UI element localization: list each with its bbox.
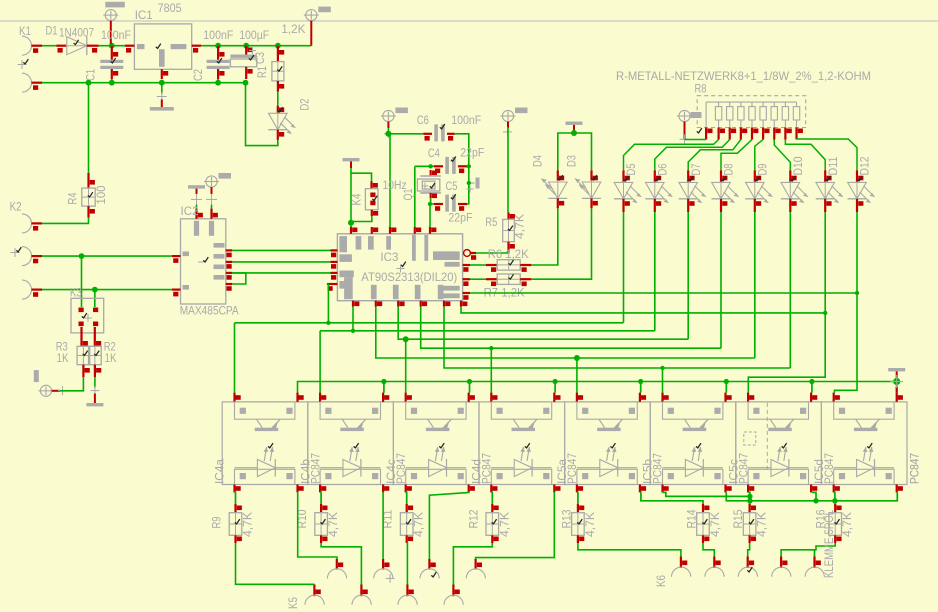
resistor R12 4.7K xyxy=(466,504,511,543)
wire R8 to D10 xyxy=(774,140,790,171)
resistor network R8 xyxy=(695,82,806,140)
wire IC3 pin1 down xyxy=(352,307,354,331)
capacitor C1 100nF xyxy=(84,28,132,81)
wire net D9 row xyxy=(376,307,755,362)
wire rail to R4 xyxy=(88,83,90,173)
svg-text:C5: C5 xyxy=(446,179,458,193)
wire net D10 row xyxy=(444,307,790,371)
wire R13 to K6 xyxy=(578,543,681,557)
wire C4 right to vertical xyxy=(467,164,471,168)
resistor R16 4.7K xyxy=(814,501,855,543)
optocoupler IC5a (PC847) xyxy=(555,393,665,493)
wire R8 to D11 xyxy=(785,140,825,171)
wire drop to opto IC4b xyxy=(319,331,321,393)
svg-text:R9: R9 xyxy=(210,516,224,528)
svg-text:R1: R1 xyxy=(255,66,269,78)
LED D3 xyxy=(565,155,602,208)
wire D2 cathode to ground rail xyxy=(243,80,278,146)
wire R14 to K6 xyxy=(703,543,714,557)
resistor R1 1.2K xyxy=(255,22,306,92)
connector K6 KLEMME-5POL xyxy=(654,557,824,588)
wire R8 to D7 xyxy=(688,140,741,171)
wire D7 vertical xyxy=(687,212,689,339)
capacitor C2 100nF xyxy=(191,28,234,81)
jumper K4 xyxy=(350,173,379,221)
wire supply to R5 xyxy=(507,128,509,213)
wire R12 to K5 pin xyxy=(453,543,492,585)
resistor R9 4.7K xyxy=(210,504,255,543)
connector K5 lower pins xyxy=(286,585,463,610)
supply +5V at C6 xyxy=(381,108,408,139)
wire opto to R11 xyxy=(406,492,407,506)
supply bar at IC2 pin xyxy=(188,185,205,205)
LED D8 xyxy=(712,163,739,212)
wire R11 to K5 pin xyxy=(406,543,409,585)
wire D5 vertical xyxy=(623,212,625,323)
wire opto IC5a to R13 xyxy=(577,492,578,506)
wire opto IC4b out to upper pin xyxy=(382,492,385,559)
resistor R2 1K xyxy=(89,340,118,378)
wire R1 to D2 xyxy=(277,92,279,106)
connector K1 xyxy=(18,24,43,92)
svg-text:4,7K: 4,7K xyxy=(241,511,255,537)
jumper K3 xyxy=(70,256,104,340)
wire IC2 RE-DE loop xyxy=(232,273,246,284)
svg-text:D7: D7 xyxy=(689,163,703,175)
svg-text:1N4007: 1N4007 xyxy=(59,26,94,40)
capacitor C3 100uF electrolytic xyxy=(230,28,269,79)
wire K2 pin3 to IC2 xyxy=(42,287,172,293)
svg-text:1,2K: 1,2K xyxy=(281,22,306,36)
supply +5V at rail right xyxy=(304,7,331,46)
label KLEMME-5POL xyxy=(822,510,836,578)
wire opto IC5c right pin join xyxy=(812,492,816,500)
svg-text:4,7K: 4,7K xyxy=(513,213,527,239)
resistor R3 1K xyxy=(56,340,90,378)
svg-text:R5: R5 xyxy=(485,215,497,229)
optocoupler IC4a (PC847) xyxy=(213,393,323,493)
resistor R10 4.7K xyxy=(295,504,340,543)
svg-text:4,7K: 4,7K xyxy=(583,511,597,537)
wire C2 bottom to rail xyxy=(215,79,221,86)
IC3 AT90S2313 xyxy=(327,227,476,307)
svg-text:AT90S2313(DIL20): AT90S2313(DIL20) xyxy=(361,270,457,284)
svg-text:D12: D12 xyxy=(858,156,872,175)
svg-text:IC3: IC3 xyxy=(380,250,398,264)
LED D12 xyxy=(848,156,875,212)
svg-text:IC5c: IC5c xyxy=(726,459,740,484)
wire net D6 row xyxy=(320,329,655,333)
svg-text:IC4b: IC4b xyxy=(298,459,312,484)
wire R6 to D4 xyxy=(531,208,558,265)
wire R3 to supply xyxy=(60,377,83,391)
optocoupler IC4b (PC847) xyxy=(298,393,408,493)
LED D5 xyxy=(614,163,641,212)
wire opto to R9 xyxy=(235,492,236,506)
wire +5V bus over optos xyxy=(298,375,904,393)
supply +5V at IC2 xyxy=(204,173,231,205)
resistor R7 1.2K xyxy=(470,274,531,299)
resistor R13 4.7K xyxy=(559,504,597,543)
svg-text:100nF: 100nF xyxy=(203,28,233,42)
svg-text:1K: 1K xyxy=(57,351,70,365)
svg-text:K1: K1 xyxy=(19,24,31,38)
svg-text:K2: K2 xyxy=(10,200,22,214)
LED D11 xyxy=(816,156,843,212)
wire C6 to right vertical xyxy=(455,134,469,167)
wire D6 vertical xyxy=(654,212,656,331)
supply bar at D3 D4 xyxy=(566,122,583,134)
ground rail wire xyxy=(42,80,246,86)
wire D8 vertical xyxy=(720,212,722,348)
svg-text:D10: D10 xyxy=(791,156,805,175)
optocoupler IC5d (PC847) xyxy=(812,393,922,493)
wire supplies to IC2 pins xyxy=(197,205,212,209)
svg-text:22pF: 22pF xyxy=(460,146,484,160)
capacitor C4 22pF xyxy=(428,146,485,174)
svg-text:R15: R15 xyxy=(731,509,745,528)
svg-text:C1: C1 xyxy=(84,69,98,81)
capacitor C5 22pF xyxy=(434,179,473,225)
svg-text:4,7K: 4,7K xyxy=(708,511,722,537)
supply +12V at R3 xyxy=(34,370,67,396)
wire supply to R8 common xyxy=(685,139,707,141)
wire net D7 row xyxy=(398,307,688,343)
wire IC2 to IC3 line 2 xyxy=(232,261,330,263)
wire net D8 row xyxy=(421,307,721,351)
svg-text:100nF: 100nF xyxy=(101,28,131,42)
wire R9 to K5 pin xyxy=(236,543,315,584)
svg-text:D2: D2 xyxy=(298,98,312,110)
svg-text:C2: C2 xyxy=(191,69,205,81)
svg-text:MAX485CPA: MAX485CPA xyxy=(180,304,239,318)
svg-text:100: 100 xyxy=(94,185,108,204)
svg-text:R8: R8 xyxy=(695,82,707,96)
wire opto common row upper xyxy=(663,492,753,506)
svg-text:IC5d: IC5d xyxy=(812,459,826,484)
wire R10 to K5 pin xyxy=(321,543,361,585)
wire supply to D3 D4 tops xyxy=(558,130,592,170)
wire IC3 pin to D5 row xyxy=(327,284,329,323)
svg-text:C3: C3 xyxy=(253,52,267,64)
svg-text:K5: K5 xyxy=(286,597,300,609)
wire D10 vertical xyxy=(789,212,791,368)
svg-text:IC4c: IC4c xyxy=(384,459,398,484)
svg-text:IC5b: IC5b xyxy=(641,459,655,484)
ground at IC1 xyxy=(150,83,174,111)
LED D10 xyxy=(781,156,808,212)
svg-text:D1: D1 xyxy=(46,24,58,38)
wire opto IC4c out to upper pin xyxy=(429,492,469,559)
svg-text:22pF: 22pF xyxy=(448,211,472,225)
svg-text:R4: R4 xyxy=(66,192,80,204)
wire D12 vertical to opto IC5d xyxy=(835,212,858,393)
wire drop to opto IC5b xyxy=(662,368,664,393)
svg-text:R13: R13 xyxy=(559,509,573,528)
wire C5 right to vertical xyxy=(467,166,469,204)
network title text xyxy=(616,69,871,83)
wire R7 to D3 xyxy=(531,208,591,279)
svg-text:4,7K: 4,7K xyxy=(412,511,426,537)
wire opto to R12 xyxy=(491,492,492,506)
resistor R6 1.2K xyxy=(470,247,531,272)
LED D9 xyxy=(745,163,772,212)
svg-text:K3: K3 xyxy=(70,286,82,300)
svg-text:D3: D3 xyxy=(565,155,579,167)
optocoupler IC5b (PC847) xyxy=(641,393,751,493)
wire D1 to C1/IC1 xyxy=(99,43,125,49)
optocoupler IC5c (PC847) xyxy=(726,393,836,493)
svg-text:4,7K: 4,7K xyxy=(326,511,340,537)
diode D1 1N4007 xyxy=(46,24,99,56)
wire opto IC5c left pin join xyxy=(748,492,750,496)
wire IC1 out to C2 C3 R1 xyxy=(201,43,311,49)
wire supply to IC3 pin3 and C6 xyxy=(385,128,423,227)
wire K6 pin5 up xyxy=(815,550,817,557)
supply +12V at C1 xyxy=(103,2,125,44)
svg-text:C6: C6 xyxy=(417,113,429,127)
wire R15 to K6 xyxy=(748,543,750,557)
IC1 7805 voltage regulator xyxy=(125,1,201,79)
svg-text:4,7K: 4,7K xyxy=(497,511,511,537)
wire IC2 to IC3 line 1 xyxy=(232,249,330,251)
wire R8 to D9 xyxy=(755,140,763,171)
svg-text:100nF: 100nF xyxy=(451,113,481,127)
wire opto IC4d out to upper pin xyxy=(476,492,555,559)
wire D11 vertical to opto IC5c xyxy=(748,212,825,393)
svg-text:D11: D11 xyxy=(826,156,840,175)
label PC847 right xyxy=(908,453,922,484)
wire drop to opto IC4c xyxy=(405,339,407,392)
svg-text:D9: D9 xyxy=(756,163,770,175)
IC2 MAX485CPA xyxy=(172,204,239,318)
connector upper pins xyxy=(327,559,485,583)
wire net D11 row xyxy=(461,307,827,316)
supply +5V at R5 xyxy=(501,108,528,137)
resistor R15 4.7K xyxy=(731,500,769,543)
svg-text:D6: D6 xyxy=(656,163,670,175)
svg-text:IC5a: IC5a xyxy=(555,459,569,484)
svg-text:IC2: IC2 xyxy=(181,204,199,218)
wire K2 pin2 to IC2 xyxy=(42,253,172,259)
resistor R14 4.7K xyxy=(685,504,723,543)
svg-text:D8: D8 xyxy=(722,163,736,175)
wire net D12 row xyxy=(470,291,859,295)
svg-text:PC847: PC847 xyxy=(908,453,922,484)
svg-text:K6: K6 xyxy=(654,575,668,587)
LED D4 xyxy=(531,155,568,208)
LED D6 xyxy=(645,163,672,212)
wire R5 to IC3 reset pin xyxy=(476,252,509,255)
wire drop to opto IC5a xyxy=(576,358,578,393)
resistor R4 100 xyxy=(66,173,109,218)
wire R8 to D5 xyxy=(624,140,719,171)
wire net D5 row xyxy=(235,321,624,325)
svg-text:C4: C4 xyxy=(428,146,440,160)
wire K2 pin1 to R4 xyxy=(42,218,89,224)
wire K1 to D1 xyxy=(42,45,56,47)
svg-text:4,7K: 4,7K xyxy=(755,511,769,537)
optocoupler IC4d (PC847) xyxy=(470,393,580,493)
svg-text:KLEMME-5POL: KLEMME-5POL xyxy=(822,510,836,578)
wire opto to R10 xyxy=(320,492,321,506)
wire R8 to D12 xyxy=(796,139,857,170)
wire D9 vertical xyxy=(754,212,756,358)
wire C1 bottom to rail xyxy=(111,79,113,83)
svg-text:R14: R14 xyxy=(685,509,699,528)
crystal Q1 10Hz xyxy=(383,170,441,201)
wire drop to opto IC4a xyxy=(234,323,236,393)
wire drop to opto IC4d xyxy=(490,348,492,392)
wire opto IC5d left pin join xyxy=(834,492,835,500)
wire R8 to D6 xyxy=(655,140,730,171)
capacitor C6 100nF xyxy=(417,113,482,141)
supply bar at K4 xyxy=(343,158,360,168)
wire opto IC5a out to R14 xyxy=(641,492,703,506)
svg-text:D5: D5 xyxy=(624,163,638,175)
svg-text:R6 1,2K: R6 1,2K xyxy=(488,247,530,261)
LED D7 xyxy=(679,163,706,212)
svg-text:R-METALL-NETZWERK8+1_1/8W_2%_1: R-METALL-NETZWERK8+1_1/8W_2%_1,2-KOHM xyxy=(616,69,871,83)
svg-text:1K: 1K xyxy=(105,351,118,365)
resistor R5 4.7K xyxy=(485,213,526,253)
svg-text:IC4d: IC4d xyxy=(470,459,484,484)
wire IC2 to IC3 line 3 xyxy=(232,272,330,274)
optocoupler IC4c (PC847) xyxy=(384,393,494,493)
svg-text:IC1: IC1 xyxy=(135,8,153,22)
wire R8 to D8 xyxy=(721,140,752,171)
svg-text:D4: D4 xyxy=(531,155,545,167)
ground at R2 xyxy=(86,377,103,406)
wire R16 to K6 xyxy=(781,543,835,557)
wire supply to IC3 pin1 xyxy=(348,168,354,227)
LED D2 xyxy=(268,98,311,140)
wire opto common row lower xyxy=(726,492,897,503)
svg-text:7805: 7805 xyxy=(158,1,182,15)
ground at crystal caps xyxy=(467,178,480,193)
resistor R11 4.7K xyxy=(381,504,426,543)
wire Q1 to C5 and IC3 pin5 xyxy=(428,198,434,227)
svg-text:IC4a: IC4a xyxy=(213,459,227,484)
supply bar at opto bus xyxy=(888,368,905,378)
svg-text:Q1: Q1 xyxy=(401,188,415,200)
svg-text:R12: R12 xyxy=(466,509,480,528)
wire C4 line to IC3 pin4 xyxy=(415,164,434,227)
supply +5V at R8 xyxy=(677,110,702,144)
svg-text:4,7K: 4,7K xyxy=(840,511,854,537)
frame line xyxy=(0,20,938,22)
svg-text:100µF: 100µF xyxy=(239,28,269,42)
connector K2 xyxy=(10,200,42,300)
svg-text:K4: K4 xyxy=(350,193,364,205)
wire opto IC4a out to upper pin xyxy=(298,492,337,559)
